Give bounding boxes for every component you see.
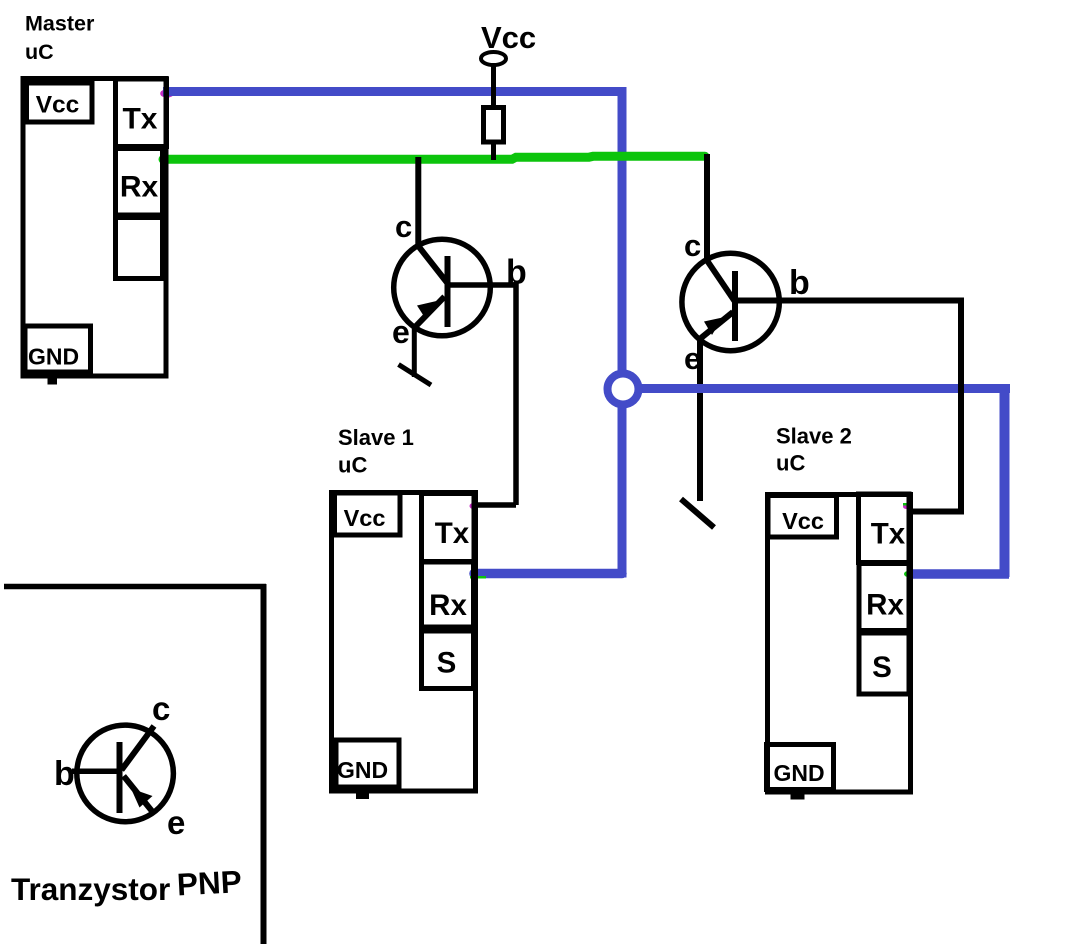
svg-text:Vcc: Vcc: [344, 505, 386, 531]
svg-text:uC: uC: [25, 40, 54, 64]
svg-text:S: S: [437, 647, 457, 680]
svg-text:c: c: [395, 209, 412, 244]
svg-text:Tx: Tx: [435, 517, 470, 550]
svg-text:c: c: [684, 228, 701, 263]
svg-text:Vcc: Vcc: [782, 508, 824, 534]
svg-text:b: b: [54, 755, 75, 793]
svg-text:S: S: [872, 651, 892, 684]
svg-text:b: b: [506, 254, 527, 292]
svg-text:Vcc: Vcc: [481, 20, 536, 55]
svg-text:e: e: [684, 341, 701, 376]
svg-text:GND: GND: [337, 757, 388, 783]
svg-text:Slave 2: Slave 2: [776, 424, 852, 449]
svg-text:c: c: [152, 690, 170, 727]
svg-text:uC: uC: [338, 453, 367, 478]
svg-text:GND: GND: [28, 344, 79, 370]
svg-text:Tranzystor: Tranzystor: [11, 871, 170, 907]
svg-text:e: e: [167, 804, 185, 841]
svg-text:Rx: Rx: [429, 589, 467, 622]
svg-text:Rx: Rx: [120, 171, 159, 204]
svg-text:Tx: Tx: [122, 103, 157, 136]
svg-text:Tx: Tx: [871, 518, 906, 551]
svg-text:PNP: PNP: [176, 863, 243, 902]
svg-text:Rx: Rx: [866, 589, 904, 622]
svg-text:uC: uC: [776, 451, 805, 476]
svg-text:Vcc: Vcc: [36, 92, 80, 119]
svg-text:Master: Master: [25, 12, 95, 36]
svg-text:b: b: [789, 264, 810, 302]
svg-text:Slave 1: Slave 1: [338, 425, 414, 450]
svg-text:GND: GND: [773, 760, 824, 786]
svg-text:e: e: [392, 314, 410, 350]
